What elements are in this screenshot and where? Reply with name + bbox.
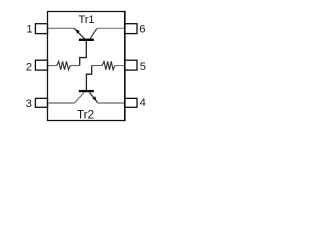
svg-text:Tr2: Tr2 [77,107,95,121]
transistor Tr2 emitter lead [89,92,98,102]
pin 5 [125,60,137,70]
resistor R2 [102,61,115,69]
transistor Tr2 collector lead [75,92,84,102]
wire Tr2 base jog to resistor R2 [86,66,91,90]
svg-text:3: 3 [26,98,32,110]
wire R2 to pin 5 [115,65,124,67]
wire pin 3 to Tr2 collector [48,102,75,104]
pin 3 [35,98,47,107]
wire Tr1 base jog [80,41,87,66]
pin 1 [35,24,47,34]
svg-text:1: 1 [26,24,32,36]
transistor Tr2 emitter arrowhead [92,96,96,100]
pin 2 [35,60,47,70]
package outline right edge [124,11,126,121]
pin 6 [125,24,137,34]
wire pin 2 to resistor R1 [48,65,57,67]
wire Tr2 emitter to pin 4 [98,102,124,104]
svg-text:5: 5 [140,61,146,73]
svg-text:Tr1: Tr1 [78,14,94,26]
wire jog to resistor R2 [92,65,102,67]
pin 4 [125,98,137,107]
svg-text:6: 6 [139,24,145,36]
package outline [48,12,125,121]
wire R1 to Tr1 base jog [70,65,79,67]
transistor Tr1 collector lead [90,28,97,38]
transistor Tr1 emitter arrowhead [76,29,80,33]
transistor Tr2 base bar [79,90,94,92]
svg-text:4: 4 [140,97,146,109]
wire Tr1 collector to pin 6 [97,27,124,29]
transistor Tr1 emitter lead [74,28,84,38]
resistor R1 [57,61,71,69]
transistor Tr1 base bar [79,39,94,41]
svg-text:2: 2 [26,62,32,74]
wire pin 1 to Tr1 emitter [48,27,74,29]
